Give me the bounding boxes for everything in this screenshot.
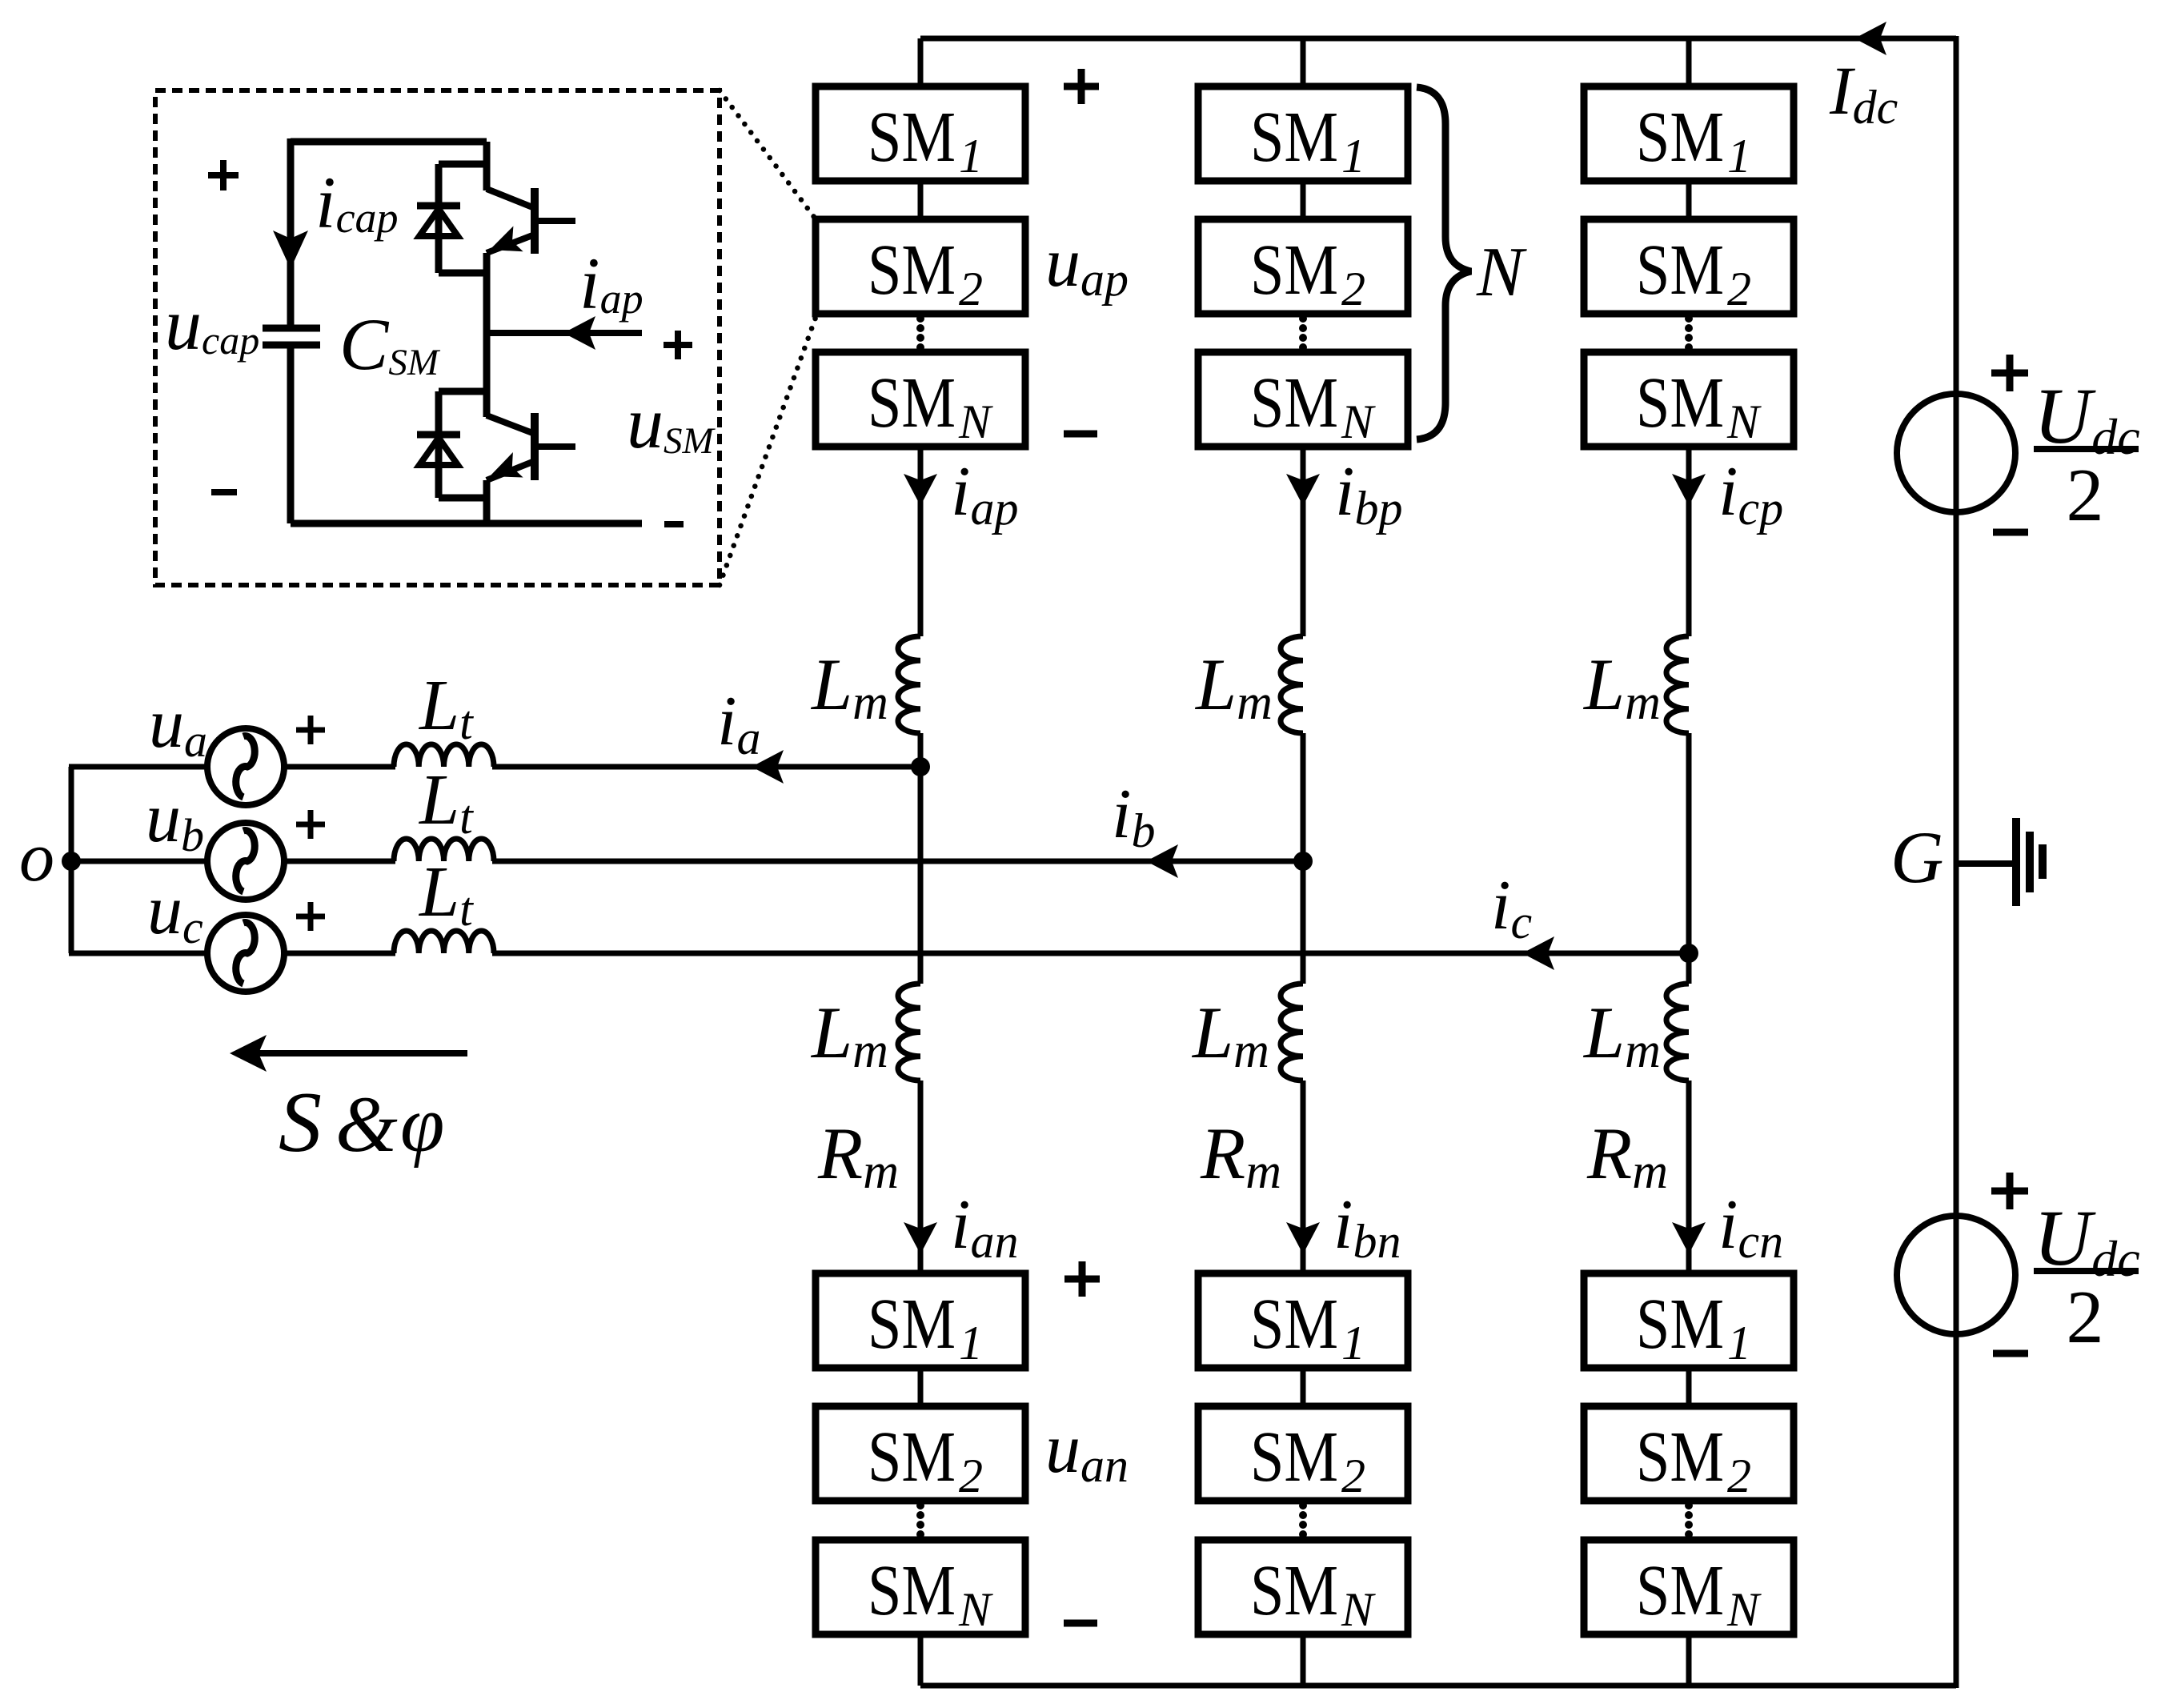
wire lower arm (Rm) phase b bbox=[1301, 1081, 1306, 1277]
dots ellipsis upper arm phase b bbox=[1299, 315, 1307, 351]
minus of u_ap bbox=[1064, 431, 1097, 438]
node junction phase b AC tap bbox=[1293, 852, 1313, 871]
svg-text:SM: SM bbox=[1250, 98, 1338, 177]
label i_c bbox=[1491, 867, 1532, 948]
inductor Lt phase a bbox=[394, 744, 494, 767]
minus of lower U_dc/2 bbox=[1993, 1350, 2028, 1357]
label u_c bbox=[147, 872, 203, 953]
source u_b AC (circle) bbox=[207, 823, 284, 900]
SM box SM2 lower arm phase b bbox=[1198, 1406, 1408, 1502]
svg-text:2: 2 bbox=[1341, 1449, 1365, 1502]
wire SM1-SM2 lower arm phase a bbox=[918, 1365, 924, 1409]
wire SM1-SM2 lower arm phase c bbox=[1686, 1365, 1692, 1409]
SM box SMN upper arm phase b bbox=[1198, 352, 1408, 448]
wire phase a from top bus to SM1 bbox=[918, 38, 924, 90]
SM box SM2 lower arm phase a bbox=[816, 1406, 1025, 1502]
plus of source u_b bbox=[296, 810, 325, 839]
svg-text:1: 1 bbox=[1341, 1317, 1365, 1369]
svg-text:SM: SM bbox=[868, 363, 956, 443]
plus of u_cap bbox=[208, 160, 239, 190]
wire upper arm output phase b bbox=[1301, 443, 1306, 636]
svg-text:SM: SM bbox=[868, 98, 956, 177]
svg-text:N: N bbox=[1341, 395, 1376, 448]
inductor Lm upper arm phase b bbox=[1281, 636, 1303, 733]
brace N count of SMs (phase b upper arm) bbox=[1417, 87, 1471, 439]
svg-text:S: S bbox=[279, 1075, 322, 1170]
svg-text:SM: SM bbox=[1636, 231, 1724, 310]
label Rm phase b bbox=[1200, 1113, 1281, 1199]
SM box SMN upper arm phase a bbox=[816, 352, 1025, 448]
ground G symbol bbox=[2016, 818, 2043, 906]
label Rm phase c bbox=[1586, 1113, 1668, 1199]
arrow I_dc direction on top bus bbox=[1854, 22, 1886, 55]
wire junction to lower Lm phase b bbox=[1301, 861, 1306, 984]
svg-text:1: 1 bbox=[1341, 130, 1365, 182]
SM box SM1 lower arm phase a bbox=[816, 1273, 1025, 1369]
SM box SM2 upper arm phase a bbox=[816, 219, 1025, 315]
wire Lt to junction phase c (i_c line) bbox=[492, 951, 1689, 956]
arrow i_bp arm current bbox=[1286, 474, 1320, 506]
svg-text:1: 1 bbox=[959, 1317, 983, 1369]
label i_bn bbox=[1333, 1186, 1401, 1268]
label Lm upper phase c bbox=[1582, 644, 1661, 730]
label i_bp bbox=[1335, 453, 1402, 535]
label Rm phase a bbox=[817, 1113, 899, 1199]
source u_c AC (circle) bbox=[207, 915, 284, 992]
label Lt phase a bbox=[418, 666, 474, 749]
wire upper arm output phase c bbox=[1686, 443, 1692, 636]
wire midpoint segment bbox=[483, 253, 491, 417]
svg-text:2: 2 bbox=[959, 263, 983, 315]
wire SM top (cap to upper IGBT collector) bbox=[291, 138, 487, 146]
inductor Lm lower arm phase a bbox=[898, 984, 920, 1081]
arrow i_bn arm current bbox=[1286, 1222, 1320, 1254]
svg-text:SM: SM bbox=[868, 1551, 956, 1630]
svg-text:&: & bbox=[335, 1080, 398, 1169]
wire left AC bus vertical bbox=[69, 767, 74, 953]
dots ellipsis lower arm phase b bbox=[1299, 1502, 1307, 1538]
wire phase c from top bus to SM1 bbox=[1686, 38, 1692, 90]
svg-text:2: 2 bbox=[2067, 454, 2104, 537]
wire capacitor branch upper bbox=[287, 138, 295, 325]
SM box SM2 upper arm phase c bbox=[1584, 219, 1794, 315]
label Lt phase b bbox=[418, 760, 474, 844]
svg-text:SM: SM bbox=[1636, 98, 1724, 177]
arrow i_an arm current bbox=[904, 1222, 937, 1254]
arrow i_ap arm current bbox=[904, 474, 937, 506]
wire right DC rail bbox=[1954, 36, 1959, 1688]
svg-text:1: 1 bbox=[959, 130, 983, 182]
node junction phase a AC tap bbox=[911, 757, 930, 776]
label u_a bbox=[149, 685, 207, 767]
wire SM1-SM2 lower arm phase b bbox=[1301, 1365, 1306, 1409]
svg-text:SM: SM bbox=[1250, 1417, 1338, 1497]
label u_ap bbox=[1045, 224, 1129, 306]
svg-text:N: N bbox=[1726, 1583, 1762, 1636]
wire junction to lower Lm phase a bbox=[918, 767, 924, 984]
plus of upper U_dc/2 bbox=[1991, 355, 2028, 391]
plus of u_ap bbox=[1064, 69, 1099, 104]
label i_cp bbox=[1718, 453, 1783, 535]
wire bus to source u_b bbox=[69, 859, 209, 864]
wire phase b from top bus to SM1 bbox=[1301, 38, 1306, 90]
svg-text:2: 2 bbox=[1727, 263, 1751, 315]
wire lower arm to bottom bus phase a bbox=[918, 1631, 924, 1686]
svg-text:2: 2 bbox=[1727, 1449, 1751, 1502]
svg-text:SM: SM bbox=[1636, 1285, 1724, 1364]
label Lm lower phase a bbox=[810, 992, 888, 1078]
label U_dc/2 lower fraction bbox=[2034, 1193, 2140, 1359]
diode D1 antiparallel upper bbox=[417, 164, 487, 273]
label Lm upper phase a bbox=[810, 644, 888, 730]
arrow S & phi power flow bbox=[230, 1035, 467, 1072]
svg-text:N: N bbox=[958, 395, 993, 448]
inductor Lt phase b bbox=[394, 839, 494, 861]
plus of u_an bbox=[1064, 1261, 1100, 1297]
SM box SM1 lower arm phase c bbox=[1584, 1273, 1794, 1369]
SM box SM1 upper arm phase a bbox=[816, 86, 1025, 182]
plus of source u_c bbox=[296, 902, 325, 931]
svg-text:SM: SM bbox=[1250, 231, 1338, 310]
inductor Lm upper arm phase c bbox=[1666, 636, 1689, 733]
wire bus to source u_a bbox=[69, 764, 209, 770]
node o neutral junction bbox=[62, 852, 81, 871]
wire bottom DC bus (negative rail) bbox=[920, 1683, 1956, 1689]
label U_dc/2 upper fraction bbox=[2034, 371, 2140, 537]
label Lt phase c bbox=[418, 852, 474, 936]
label i_cap bbox=[315, 162, 399, 243]
label I_dc bbox=[1829, 52, 1898, 134]
label C_SM bbox=[339, 303, 441, 385]
minus of u_SM right bbox=[664, 521, 684, 527]
source U_dc/2 lower (circle) bbox=[1897, 1216, 2015, 1334]
wire bus to source u_c bbox=[69, 951, 209, 956]
plus of u_SM bbox=[664, 331, 692, 359]
node junction phase c AC tap bbox=[1679, 944, 1698, 963]
svg-text:SM: SM bbox=[1250, 1551, 1338, 1630]
svg-text:2: 2 bbox=[2067, 1276, 2104, 1359]
svg-text:N: N bbox=[1476, 234, 1527, 311]
wire SM1-SM2 upper arm phase c bbox=[1686, 178, 1692, 223]
wire SM1-SM2 upper arm phase a bbox=[918, 178, 924, 223]
label N bbox=[1476, 234, 1527, 311]
arrow i_cp arm current bbox=[1672, 474, 1706, 506]
arrow i_cap bbox=[273, 231, 308, 269]
SM box SMN lower arm phase c bbox=[1584, 1540, 1794, 1636]
svg-text:φ: φ bbox=[400, 1080, 444, 1169]
dots ellipsis upper arm phase a bbox=[916, 315, 924, 351]
source u_a AC (circle) bbox=[207, 728, 284, 805]
svg-text:SM: SM bbox=[868, 231, 956, 310]
label i_b bbox=[1112, 776, 1155, 857]
arrow i_c bbox=[1522, 936, 1554, 970]
wire lower arm (Rm) phase a bbox=[918, 1081, 924, 1277]
SM box SMN lower arm phase b bbox=[1198, 1540, 1408, 1636]
arrow i_a bbox=[752, 750, 784, 784]
svg-text:SM: SM bbox=[868, 1417, 956, 1497]
plus of source u_a bbox=[296, 716, 325, 744]
wire top DC bus (positive rail) bbox=[920, 36, 1956, 42]
svg-text:SM: SM bbox=[1636, 1551, 1724, 1630]
arrow i_cn arm current bbox=[1672, 1222, 1706, 1254]
label i_ap bbox=[951, 453, 1018, 535]
wire source to Lt phase b bbox=[283, 859, 395, 864]
svg-text:2: 2 bbox=[959, 1449, 983, 1502]
wire capacitor branch lower bbox=[287, 348, 295, 523]
arrow i_ap into SM bbox=[563, 316, 595, 350]
svg-text:N: N bbox=[958, 1583, 993, 1636]
transistor T1 upper IGBT bbox=[487, 188, 575, 254]
label u_b bbox=[146, 780, 204, 861]
SM box SM1 upper arm phase b bbox=[1198, 86, 1408, 182]
wire SM1-SM2 upper arm phase b bbox=[1301, 178, 1306, 223]
wire Lt to junction phase a (i_a line) bbox=[492, 764, 920, 770]
transistor T2 lower IGBT bbox=[487, 413, 575, 480]
dotted projection line upper (box to SM2) bbox=[720, 90, 816, 220]
label o (neutral) bbox=[19, 819, 54, 896]
minus of u_an bbox=[1064, 1620, 1097, 1627]
wire upper arm output phase a bbox=[918, 443, 924, 636]
SM box SMN lower arm phase a bbox=[816, 1540, 1025, 1636]
SM box SM1 lower arm phase b bbox=[1198, 1273, 1408, 1369]
svg-text:G: G bbox=[1890, 816, 1943, 898]
inductor Lm upper arm phase a bbox=[898, 636, 920, 733]
dotted projection line lower (box to SM2) bbox=[720, 315, 816, 585]
inductor Lt phase c bbox=[394, 931, 494, 953]
SM box SM2 lower arm phase c bbox=[1584, 1406, 1794, 1502]
wire Lm to AC junction phase b bbox=[1301, 733, 1306, 861]
plus of lower U_dc/2 bbox=[1991, 1173, 2028, 1209]
svg-text:1: 1 bbox=[1727, 130, 1751, 182]
label G (ground node) bbox=[1890, 816, 1943, 898]
svg-text:1: 1 bbox=[1727, 1317, 1751, 1369]
label Lm lower phase c bbox=[1582, 992, 1661, 1078]
dots ellipsis upper arm phase c bbox=[1685, 315, 1693, 351]
wire Lm to AC junction phase a bbox=[918, 733, 924, 767]
label Lm lower phase b bbox=[1191, 992, 1269, 1078]
label i_cn bbox=[1718, 1186, 1783, 1268]
diode D2 antiparallel lower bbox=[417, 391, 487, 498]
wire lower arm (Rm) phase c bbox=[1686, 1081, 1692, 1277]
label u_SM bbox=[627, 382, 716, 463]
svg-text:SM: SM bbox=[868, 1285, 956, 1364]
capacitor C_SM plates bbox=[263, 328, 320, 345]
inductor Lm lower arm phase c bbox=[1666, 984, 1689, 1081]
svg-text:2: 2 bbox=[1341, 263, 1365, 315]
label S & phi bbox=[279, 1075, 444, 1170]
svg-text:SM: SM bbox=[1636, 363, 1724, 443]
label i_ap inset bbox=[579, 243, 643, 324]
dashed box SM detail inset bbox=[155, 90, 720, 585]
SM box SM2 upper arm phase b bbox=[1198, 219, 1408, 315]
label i_a bbox=[717, 683, 760, 764]
label u_cap bbox=[165, 283, 259, 365]
wire source to Lt phase a bbox=[283, 764, 395, 770]
source U_dc/2 upper (circle) bbox=[1897, 394, 2015, 512]
arrow i_b bbox=[1146, 844, 1178, 878]
svg-text:SM: SM bbox=[1636, 1417, 1724, 1497]
svg-text:SM: SM bbox=[1250, 1285, 1338, 1364]
wire junction to lower Lm phase c bbox=[1686, 953, 1692, 984]
minus of upper U_dc/2 bbox=[1993, 529, 2028, 536]
wire SM bottom bbox=[291, 520, 642, 527]
SM box SM1 upper arm phase c bbox=[1584, 86, 1794, 182]
wire source to Lt phase c bbox=[283, 951, 395, 956]
svg-text:SM: SM bbox=[1250, 363, 1338, 443]
label i_an bbox=[951, 1186, 1018, 1268]
SM box SMN upper arm phase c bbox=[1584, 352, 1794, 448]
svg-text:N: N bbox=[1726, 395, 1762, 448]
wire i_ap output of SM bbox=[487, 330, 642, 336]
inductor Lm lower arm phase b bbox=[1281, 984, 1303, 1081]
svg-text:o: o bbox=[19, 819, 54, 896]
wire lower arm to bottom bus phase c bbox=[1686, 1631, 1692, 1686]
label Lm upper phase b bbox=[1194, 644, 1273, 730]
wire lower IGBT emitter to bottom bbox=[483, 480, 491, 523]
wire lower arm to bottom bus phase b bbox=[1301, 1631, 1306, 1686]
dots ellipsis lower arm phase c bbox=[1685, 1502, 1693, 1538]
wire upper IGBT collector bbox=[483, 142, 491, 190]
dots ellipsis lower arm phase a bbox=[916, 1502, 924, 1538]
minus of u_cap bbox=[211, 489, 237, 495]
wire ground stub from rail bbox=[1956, 860, 2016, 867]
label u_an bbox=[1045, 1410, 1129, 1492]
wire Lt to junction phase b (i_b line) bbox=[492, 859, 1303, 864]
svg-text:N: N bbox=[1341, 1583, 1376, 1636]
wire Lm to AC junction phase c bbox=[1686, 733, 1692, 953]
